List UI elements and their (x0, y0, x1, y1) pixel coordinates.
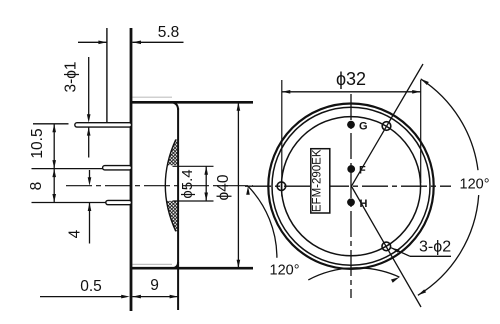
case bottom edge + extension (131, 267, 254, 270)
pin H dot (347, 198, 355, 206)
svg-text:ϕ5.4: ϕ5.4 (179, 169, 196, 198)
dimension phi32 (282, 91, 421, 93)
extension line pin3 (32, 202, 106, 204)
svg-text:H: H (360, 198, 368, 210)
hole axis line C (-60 deg) (351, 186, 421, 307)
svg-text:4: 4 (67, 229, 84, 238)
pin 3 (bottom) (106, 200, 132, 204)
case right edge (170, 102, 178, 110)
dimension phi5.4 (hole) extension lines (173, 165, 214, 167)
svg-text:0.5: 0.5 (80, 278, 102, 295)
hole axis line B (60 deg) (351, 64, 423, 186)
dimension 0.5 (flange thickness) (40, 296, 122, 298)
dimension 9 (case depth) (132, 296, 178, 298)
svg-text:120°: 120° (270, 263, 300, 279)
dimension phi40 (237, 102, 239, 268)
extension line pin2 (32, 168, 103, 170)
svg-text:120°: 120° (460, 177, 490, 193)
svg-text:3-ϕ2: 3-ϕ2 (419, 239, 451, 256)
svg-text:3-ϕ1: 3-ϕ1 (62, 61, 79, 92)
diaphragm dome arc (165, 140, 176, 232)
svg-text:F: F (359, 165, 366, 177)
centerline left view (66, 185, 253, 187)
case rim line bottom (133, 263, 173, 265)
label 3-phi2 leader (410, 255, 451, 257)
pin 2 (middle) (103, 166, 132, 170)
dimension 10.5 (53, 124, 55, 169)
pin 1 (top) (75, 123, 132, 127)
flange plate (0.5 thick) left view (130, 28, 133, 311)
mounting hole C (lower right) (382, 242, 391, 251)
dimension phi32 extension lines (281, 80, 283, 197)
svg-text:ϕ40: ϕ40 (215, 174, 232, 200)
120 deg dimension arc bottom (two segments around text) (248, 186, 277, 258)
dimension 4 (89, 170, 91, 178)
pin F dot (347, 165, 355, 173)
case rim circle (272, 107, 430, 265)
dimension 8 (53, 169, 55, 203)
centerline vertical right view (350, 94, 352, 298)
dimension phi5.4 (205, 166, 207, 201)
svg-text:8: 8 (28, 182, 45, 191)
svg-text:5.8: 5.8 (158, 24, 180, 41)
pin G dot (347, 121, 355, 129)
case outer circle phi40 (268, 104, 433, 269)
svg-text:9: 9 (150, 277, 159, 294)
centerline horizontal right view (245, 185, 451, 187)
svg-text:10.5: 10.5 (29, 128, 46, 158)
part label box (311, 149, 330, 213)
case top edge + extension (131, 101, 254, 104)
120 deg dimension arc right (two segments around text) (421, 79, 478, 170)
svg-text:G: G (359, 121, 368, 133)
dimension 5.8 (pin length) (78, 41, 107, 43)
dimension 3-phi1 (pin diameter) (88, 57, 90, 115)
svg-text:EFM-290EK: EFM-290EK (311, 149, 323, 212)
bolt circle phi32 (281, 117, 420, 256)
case rim line top (133, 96, 173, 98)
mounting hole A (left) (277, 182, 286, 191)
mounting hole B (upper right) (382, 122, 391, 131)
extension line pin tips (106, 28, 108, 123)
extension tick pin1 center (33, 123, 69, 125)
svg-text:ϕ32: ϕ32 (336, 69, 366, 89)
